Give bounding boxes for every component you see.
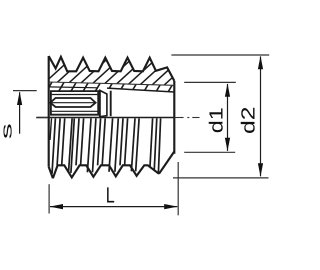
svg-text:d1: d1 [207, 107, 228, 133]
svg-text:s: s [0, 123, 16, 139]
thread flank lines (helix edges) [50, 118, 161, 173]
slot inner chamfer lines [52, 95, 98, 112]
body right edge (collar) [173, 81, 175, 154]
dimension d2: dimension line with arrows [258, 56, 263, 177]
dimension s: extension lines [13, 91, 48, 118]
dimension L: dimension line with arrows [50, 204, 178, 209]
svg-text:L: L [106, 182, 115, 207]
insert body outline: sawtooth external thread profile (section) [49, 56, 175, 81]
bottom thread profile: V notches and crest flats [53, 165, 159, 178]
dimension s: dimension line with arrow [17, 92, 22, 134]
dimension d2: extension lines [171, 55, 269, 178]
section hatching lower band (phase shifted) [44, 77, 201, 96]
bottom thread profile: right runout chamfer [159, 152, 174, 174]
bottom thread profile: left chamfer [49, 167, 53, 178]
dimension d1: dimension line with arrows [225, 83, 230, 151]
slot pin (hexagonal profile) [50, 98, 95, 107]
dimension d1: label [207, 107, 228, 133]
bore line d1 minor (solid) [49, 87, 175, 92]
svg-text:d2: d2 [238, 107, 259, 135]
dimension s: label [0, 123, 16, 139]
section hatching upper band [30, 59, 216, 96]
dimension L: label [106, 182, 115, 207]
drive slot outer rectangle [51, 91, 98, 115]
slot entry chamfer bar [100, 90, 107, 117]
internal thread start line [110, 91, 112, 117]
dimension d1: extension lines [184, 82, 236, 152]
dimension L: extension lines [49, 162, 178, 215]
centerline (axis) [36, 117, 199, 119]
body left edge [48, 56, 50, 167]
bore line d1 major (thin) [49, 82, 175, 85]
dimension d2: label [238, 107, 259, 135]
